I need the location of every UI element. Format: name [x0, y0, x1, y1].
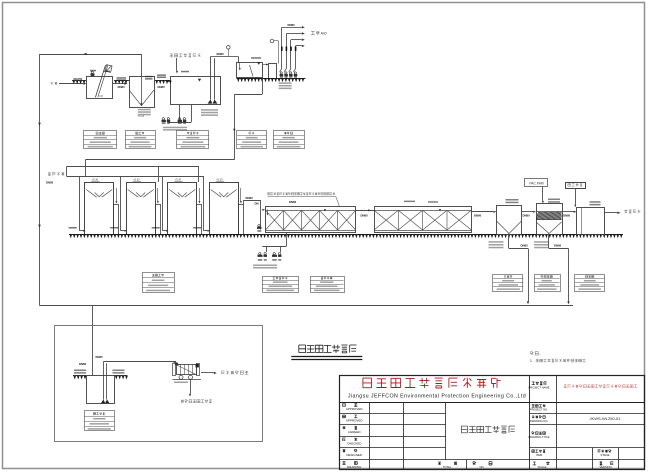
- tank UASB3 anaerobic reactor: [168, 183, 197, 235]
- tank C3 clear water tank: [577, 208, 605, 235]
- wire anaerobic feed horizontal: [85, 159, 234, 161]
- pipe biogas riser 1: [158, 167, 160, 183]
- channel UASB1 effluent: [114, 205, 119, 235]
- note filter press: [174, 382, 188, 384]
- svg-text:DESIGNED: DESIGNED: [346, 453, 363, 457]
- tank T1 bar screen channel: [87, 77, 113, 99]
- level mark T4: [257, 62, 260, 65]
- title block label TOTAL: [438, 462, 441, 466]
- svg-text:DN80: DN80: [79, 362, 87, 366]
- svg-text:+5.30: +5.30: [92, 178, 99, 181]
- wire recycle loop left vertical: [39, 54, 41, 306]
- svg-text:DN80: DN80: [361, 214, 369, 218]
- pipe riser group to A/O: [281, 27, 283, 68]
- title block label PROJECT NAME: [532, 382, 547, 385]
- wire recycle loop top: [40, 54, 142, 56]
- pipe UASB2 feed drop: [120, 176, 122, 231]
- tank T3 equalization: [171, 77, 221, 105]
- svg-text:STAGE: STAGE: [601, 453, 610, 457]
- wire sludge riser C1: [508, 234, 510, 248]
- note under T3 right: [201, 109, 218, 111]
- svg-text:DN80: DN80: [118, 85, 126, 89]
- svg-text:CHECKED: CHECKED: [347, 442, 363, 446]
- gauge PI2: [270, 39, 274, 43]
- wire PAC drop: [542, 186, 544, 201]
- channel UASB3 effluent: [197, 205, 202, 235]
- wire B2 to clarifier: [471, 211, 493, 213]
- pipe drop to blower pump: [260, 200, 262, 229]
- title main drawing title: [299, 345, 357, 353]
- svg-text:DRAWING: DRAWING: [347, 465, 362, 469]
- title block company name CN: [363, 378, 501, 388]
- pipe UASB effluent out: [243, 200, 245, 204]
- tank ST sludge thickener: [87, 376, 115, 404]
- label box lift sump: [274, 131, 305, 149]
- svg-text:DN80: DN80: [158, 85, 166, 89]
- label box lamella clarifier: [535, 275, 561, 292]
- pump P3a submersible: [162, 118, 164, 120]
- tank UASB1 anaerobic reactor: [85, 183, 114, 235]
- title block label DRAWING: [342, 462, 345, 465]
- elevation marks thickener: [74, 370, 86, 372]
- wire B1 to B2: [356, 210, 374, 212]
- node cake disposal label: [222, 371, 249, 375]
- title block label STAGE: [598, 450, 612, 453]
- svg-text:DN80: DN80: [474, 213, 482, 217]
- pipe blower drop: [286, 232, 288, 246]
- pump group P4 recycle pumps: [280, 72, 282, 74]
- title block drawing title CN: [461, 426, 515, 433]
- incline plate T4: [250, 65, 254, 77]
- svg-text:A/O: A/O: [321, 32, 327, 36]
- svg-text:DRAWING NO.: DRAWING NO.: [530, 419, 549, 423]
- svg-text:APPROVED: APPROVED: [346, 407, 364, 411]
- tank T2 hopper: [129, 90, 141, 106]
- svg-text:SCALE: SCALE: [538, 465, 547, 469]
- svg-text:+5.30: +5.30: [175, 178, 182, 181]
- bar screen incline: [95, 65, 105, 97]
- label box UASB: [143, 273, 175, 293]
- node filtrate return label: [181, 400, 212, 403]
- wire T3 lift to T4: [238, 57, 240, 64]
- svg-text:+5.30: +5.30: [133, 178, 140, 181]
- ground hatch left of T1: [72, 80, 86, 82]
- svg-text:DN80: DN80: [288, 23, 296, 27]
- wire cake out arrow: [201, 372, 214, 374]
- svg-text:JKWS-WL250-01: JKWS-WL250-01: [590, 416, 622, 421]
- label box DAF: [237, 131, 267, 149]
- wire T4 to T5: [263, 64, 267, 66]
- svg-text:DN65: DN65: [96, 355, 104, 359]
- svg-text:DN80: DN80: [554, 244, 562, 248]
- pipe UASB1 feed drop: [79, 176, 81, 231]
- wire tap water drop: [176, 58, 178, 71]
- note blowers: [253, 265, 277, 267]
- tank C1 secondary clarifier: [497, 206, 522, 235]
- svg-text:Jiangsu JEFFCON Environmental: Jiangsu JEFFCON Environmental Protection…: [348, 393, 526, 399]
- svg-text:i=0.05: i=0.05: [138, 116, 145, 118]
- svg-text::: :: [540, 352, 541, 356]
- wire influent arrow: [59, 83, 83, 85]
- pipe T3 bottom drain: [179, 104, 181, 122]
- wire drop to anaerobic feed: [234, 94, 236, 160]
- wire T4 drain down: [262, 78, 264, 94]
- wire sludge header: [40, 305, 574, 307]
- note under C1: [489, 241, 504, 243]
- wire C2 to C3: [562, 211, 574, 213]
- wire disinfection drop: [575, 189, 577, 205]
- svg-text:AGREED: AGREED: [348, 430, 362, 434]
- wire effluent discharge: [605, 212, 618, 214]
- ground hatch thickener left: [73, 375, 86, 377]
- title block label SCALE: [533, 462, 536, 465]
- svg-text:PROJECT NAME: PROJECT NAME: [528, 385, 549, 389]
- svg-text:APPROVED: APPROVED: [346, 419, 364, 423]
- title block label AGREED: [342, 426, 345, 429]
- title block label CHECKED: [343, 438, 346, 441]
- machine FP filter press: [177, 365, 197, 375]
- ground hatch thickener right: [115, 375, 128, 377]
- tank C2 lamella clarifier: [537, 204, 563, 235]
- svg-text:1.: 1.: [530, 359, 533, 363]
- wire loop drop to T2 feed: [141, 54, 143, 77]
- pump P3b submersible: [179, 118, 181, 120]
- dosing box disinfection: [566, 183, 586, 189]
- separator UASB2: [128, 190, 154, 198]
- pipe sludge to filter press: [103, 361, 176, 363]
- title block label VERSION: [600, 462, 603, 465]
- svg-text:ITEM: ITEM: [536, 453, 543, 457]
- pipe T4 inlet drop: [239, 63, 241, 69]
- title block label DRAWING TITLE: [532, 432, 546, 435]
- wire feed drop left: [85, 160, 87, 177]
- label box clear well: [575, 275, 605, 292]
- screen rake box: [105, 65, 112, 73]
- svg-text:DN80: DN80: [246, 196, 254, 200]
- note under T2: [138, 109, 151, 111]
- note aeration device: [268, 192, 336, 195]
- separator UASB1: [86, 190, 112, 198]
- separator UASB4: [211, 190, 237, 198]
- basin B1 aeration tank 1: [266, 207, 356, 233]
- filter press motor blob: [196, 364, 199, 368]
- channel UASB2 effluent: [156, 205, 161, 235]
- pipe T2 center feed: [141, 77, 143, 106]
- wire T2 to T3: [156, 80, 168, 82]
- pipe UASB feed manifold: [67, 176, 204, 178]
- note riser pumps: [279, 82, 292, 84]
- title block label APPROVED2: [343, 415, 346, 418]
- svg-text:DN80: DN80: [563, 214, 571, 218]
- tap water steam line label: [170, 54, 201, 58]
- pipe T3 pump risers: [210, 57, 212, 100]
- ground hatch clarifier row: [480, 234, 623, 236]
- svg-text:+5.30: +5.30: [216, 178, 223, 181]
- gauge PI1: [227, 46, 231, 50]
- pipe biogas riser 2: [198, 167, 200, 183]
- pump shoe in T3: [208, 100, 218, 104]
- pipe biogas header: [67, 166, 200, 168]
- wire sludge drop to thickener: [92, 306, 94, 376]
- node discharge label: [624, 210, 640, 213]
- wire T4 drain horizontal: [234, 94, 262, 96]
- node discharge to A/O label: [311, 31, 320, 35]
- title block label DRAWING NO: [532, 416, 545, 419]
- title block grid lines: [339, 402, 644, 404]
- wire C1 to C2: [522, 211, 534, 213]
- label box secondary clarifier: [493, 275, 523, 292]
- svg-text:DRAWING TITLE: DRAWING TITLE: [529, 435, 550, 439]
- dosing box PAC PAM: [525, 179, 548, 187]
- note pumps T3: [163, 127, 187, 129]
- title block label DESIGNED: [343, 450, 346, 453]
- svg-text:TOTAL: TOTAL: [443, 465, 452, 469]
- level mark T3: [198, 79, 201, 82]
- label box aeration 2: [311, 277, 345, 293]
- svg-text:DN80: DN80: [217, 52, 225, 56]
- channel UASB4 effluent: [239, 205, 244, 235]
- label box equalization: [177, 131, 209, 149]
- wire T1 to T2: [113, 83, 125, 85]
- tank UASB4 anaerobic reactor: [210, 183, 239, 235]
- svg-text:PAC.PAM: PAC.PAM: [529, 181, 544, 185]
- label box aeration 1: [263, 277, 299, 293]
- title block label NO: [473, 462, 476, 465]
- svg-text:i:38: i:38: [99, 95, 104, 98]
- node influent label: [51, 82, 58, 85]
- node recirculation label: [48, 172, 64, 175]
- title block label APPROVED1: [343, 404, 346, 407]
- filter press wheels: [179, 375, 183, 379]
- svg-text:DN80: DN80: [521, 244, 529, 248]
- basin B2 aeration tank 2: [375, 207, 472, 233]
- title block label PROJECT NO: [532, 404, 546, 407]
- pipe thickener pump risers: [103, 362, 105, 400]
- ground hatch T1-T2 gap: [114, 80, 129, 82]
- wire filtrate drain: [190, 379, 192, 393]
- pump P5 lift: [258, 225, 260, 227]
- ground hatch T2-T3 gap: [155, 80, 171, 82]
- wire sludge riser C2: [548, 234, 550, 248]
- title block value project name red: [564, 385, 637, 388]
- svg-text:DN: DN: [255, 201, 259, 205]
- tank T4 DAF separator: [237, 63, 263, 78]
- note block shuoming: [531, 352, 539, 355]
- tank UASB2 anaerobic reactor: [127, 183, 156, 235]
- svg-text:PROJECT NO.: PROJECT NO.: [530, 408, 548, 412]
- pipe UASB3 feed drop: [162, 176, 164, 231]
- title block label ITEM: [532, 450, 546, 453]
- tank T5 outlet well: [269, 64, 277, 79]
- tank T2 coagulation sedimentation: [130, 77, 155, 108]
- lamella media band: [536, 212, 564, 220]
- blower BL1: [259, 253, 261, 255]
- svg-text:DN80: DN80: [523, 213, 531, 217]
- blower BL2: [273, 253, 275, 255]
- svg-text:NO.: NO.: [480, 465, 485, 469]
- pipe T3 discharge header: [211, 56, 239, 58]
- label box thickener: [85, 411, 115, 431]
- svg-text:VERSION: VERSION: [599, 465, 611, 469]
- pipe blower manifold: [262, 246, 286, 248]
- separator UASB3: [169, 190, 195, 198]
- note under C2: [534, 241, 549, 243]
- pump P1 screenings: [91, 71, 93, 73]
- ground hatch bioreactor row: [69, 234, 480, 236]
- title block outer frame: [340, 376, 645, 470]
- label box grid chamber: [84, 131, 117, 149]
- svg-text:DN80: DN80: [46, 181, 54, 185]
- label box sedimentation: [126, 131, 156, 149]
- svg-text:DN80: DN80: [289, 200, 297, 204]
- sludge subsystem frame: [55, 326, 263, 442]
- ground hatch under T4 T5 risers: [237, 78, 306, 80]
- pipe UASB4 feed drop: [203, 176, 205, 231]
